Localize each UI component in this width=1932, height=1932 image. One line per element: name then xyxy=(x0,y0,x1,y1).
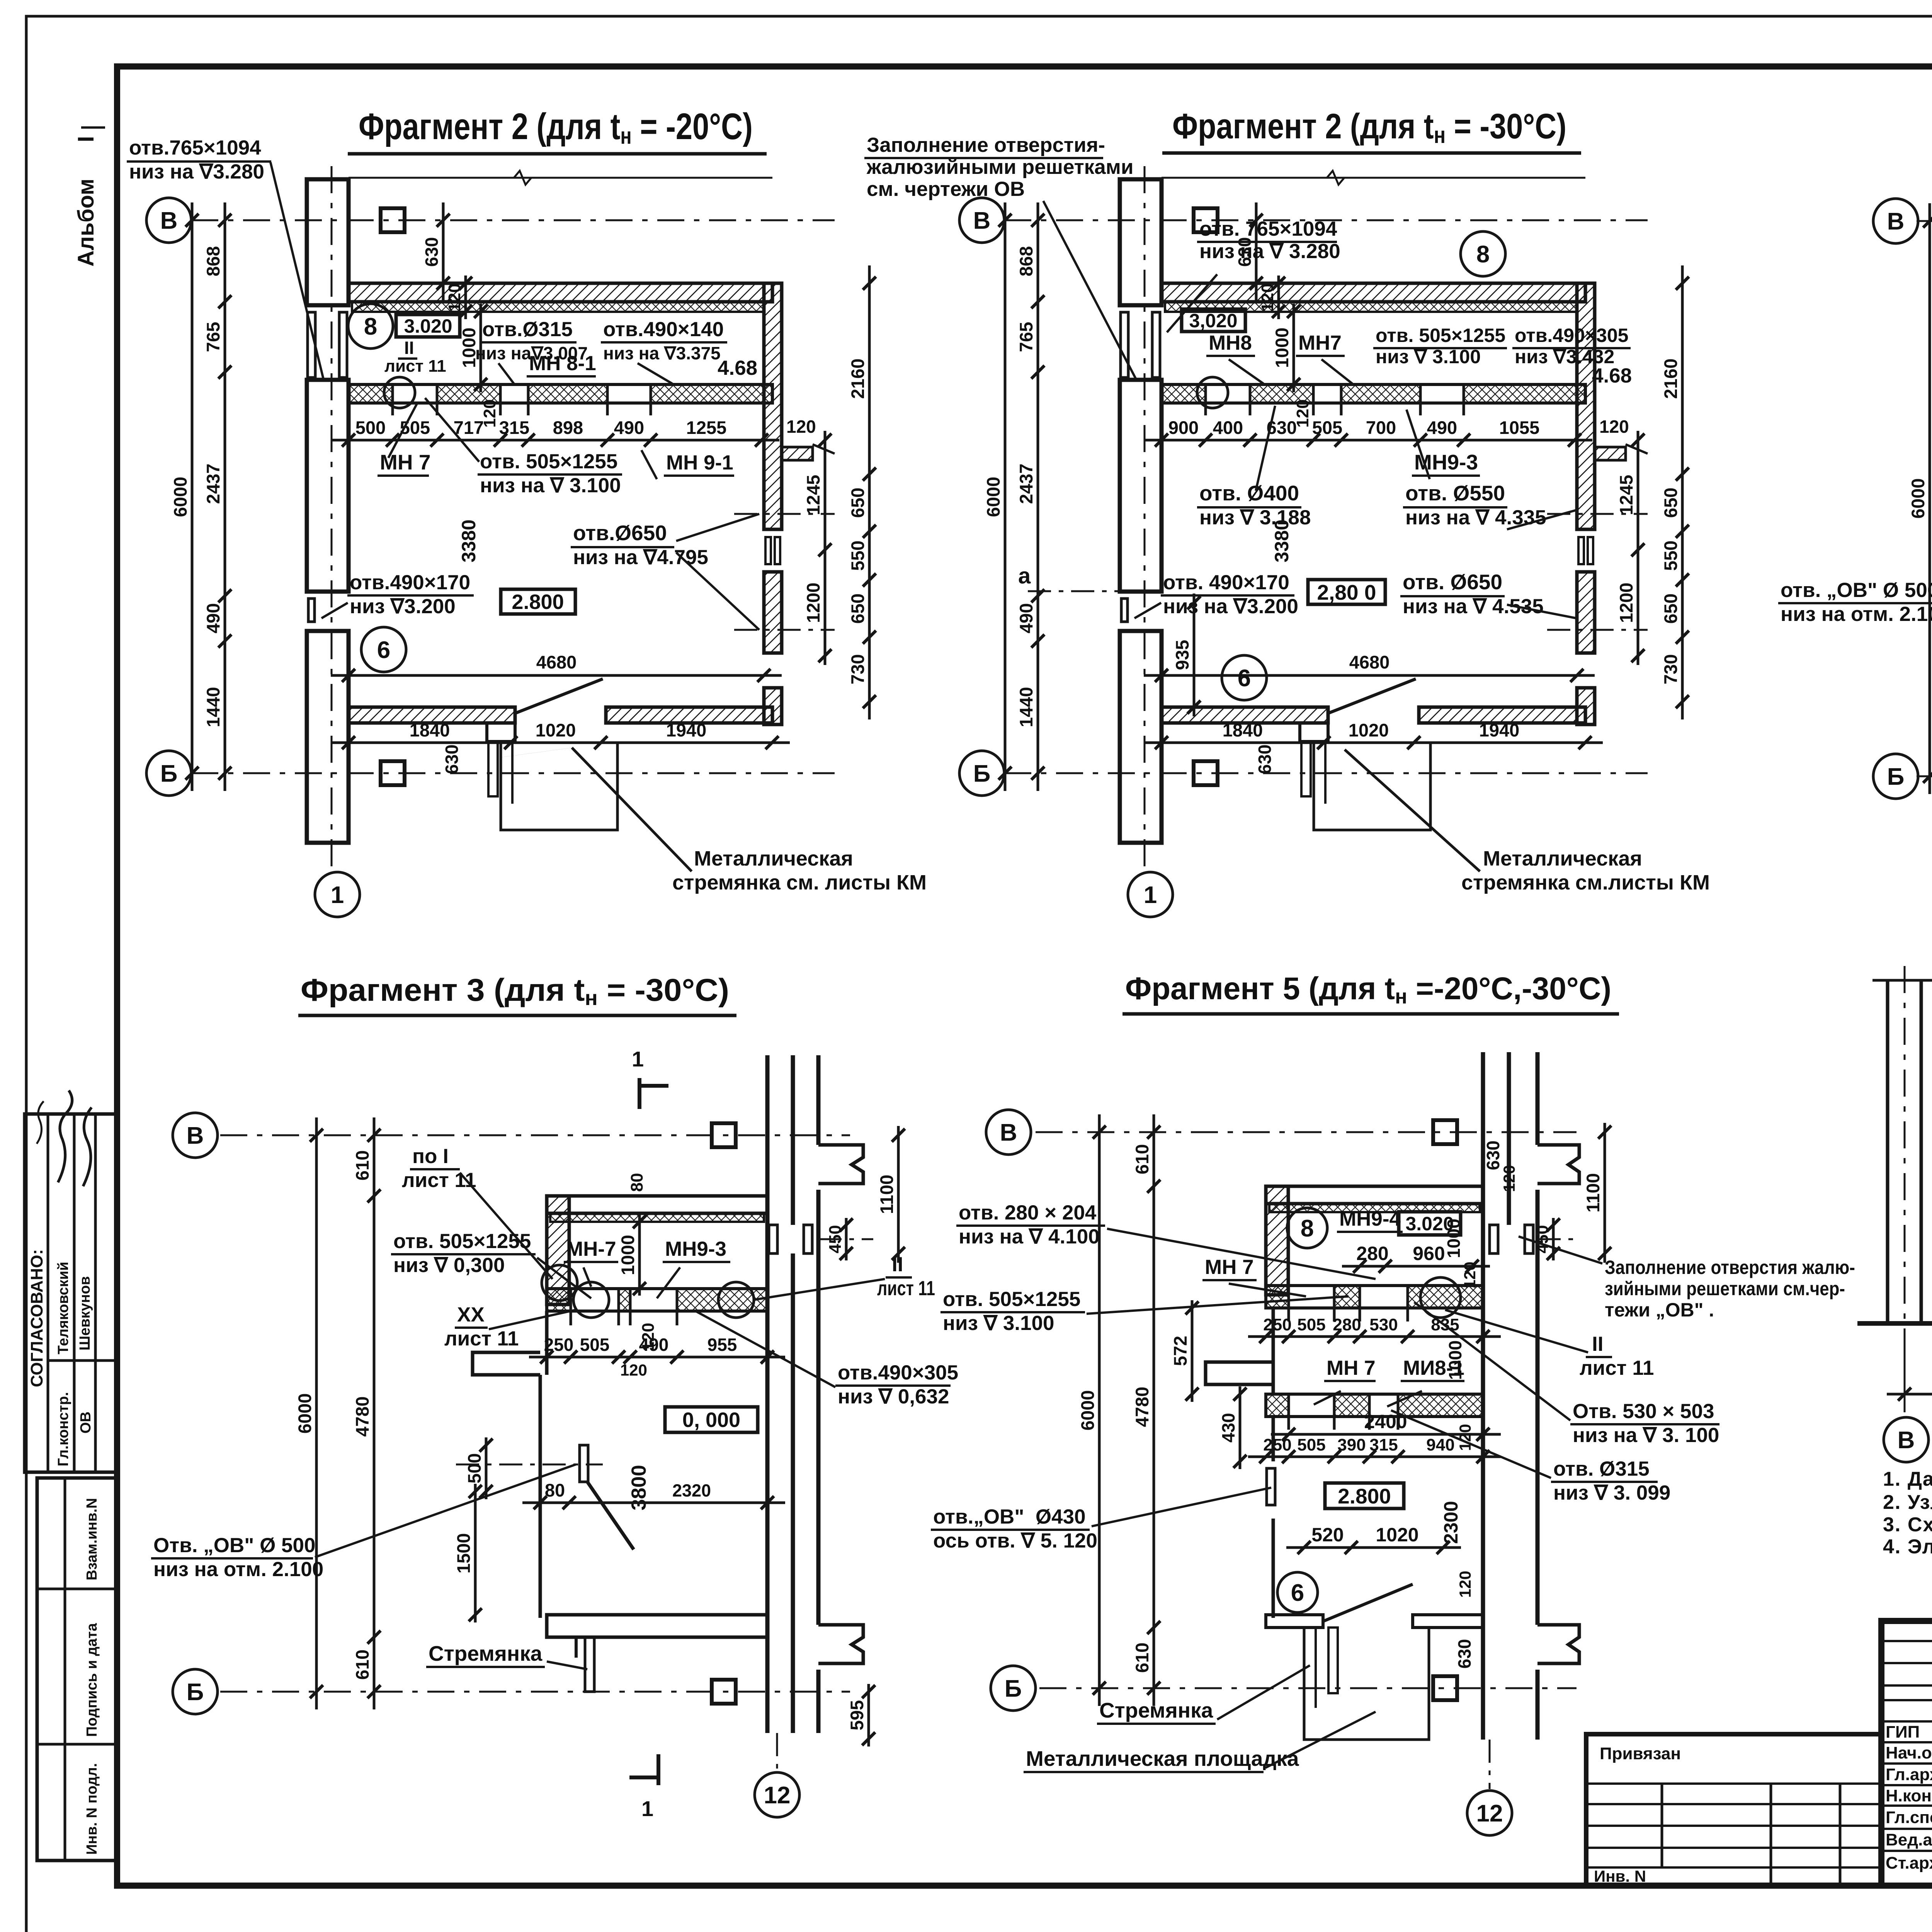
svg-text:490: 490 xyxy=(639,1335,669,1355)
right wall column xyxy=(1481,1052,1485,1740)
svg-text:II: II xyxy=(892,1253,903,1276)
node circles (uzly) xyxy=(542,1265,577,1301)
svg-text:Металлическая площадка: Металлическая площадка xyxy=(1026,1747,1299,1770)
door swing line xyxy=(1328,679,1416,713)
svg-text:120: 120 xyxy=(445,283,464,311)
lower interior band with openings xyxy=(1266,1394,1483,1417)
axis circle В xyxy=(146,198,191,243)
svg-text:Стремянка: Стремянка xyxy=(1099,1698,1213,1722)
svg-text:Заполнение отверстия жалю-: Заполнение отверстия жалю- xyxy=(1605,1257,1855,1278)
svg-text:1. Данный лист см. совместно с: 1. Данный лист см. совместно с листами 1… xyxy=(1883,1468,1932,1490)
svg-text:1200: 1200 xyxy=(1616,583,1636,623)
svg-text:2320: 2320 xyxy=(672,1481,711,1500)
axis circle В xyxy=(173,1113,218,1158)
svg-text:1100: 1100 xyxy=(1583,1173,1603,1213)
bottom wall left segment (hatched) xyxy=(349,707,515,723)
svg-text:1255: 1255 xyxy=(686,417,727,438)
axis B line xyxy=(1004,219,1648,221)
axis circle Б xyxy=(959,751,1004,796)
svg-text:Взам.инв.N: Взам.инв.N xyxy=(84,1498,100,1580)
svg-text:Альбом: Альбом xyxy=(73,179,99,267)
svg-text:Вед.арх.: Вед.арх. xyxy=(1886,1830,1932,1849)
svg-text:900: 900 xyxy=(1168,417,1199,438)
bottom wall right segment (hatched) xyxy=(606,707,772,723)
svg-text:1000: 1000 xyxy=(617,1235,638,1276)
svg-text:315: 315 xyxy=(499,417,529,438)
svg-text:низ ∇ 3. 099: низ ∇ 3. 099 xyxy=(1553,1481,1670,1504)
svg-text:490: 490 xyxy=(1427,417,1457,438)
wall top T-cap xyxy=(818,1145,863,1184)
svg-text:550: 550 xyxy=(1660,541,1681,571)
right inner dims 1245/1200 xyxy=(824,431,827,665)
svg-text:650: 650 xyxy=(847,594,868,624)
svg-text:по I: по I xyxy=(412,1145,449,1168)
svg-text:низ на отм. 2.100: низ на отм. 2.100 xyxy=(1781,603,1932,626)
right top dims 1100/450 xyxy=(1604,1123,1606,1263)
axis bubble 8 xyxy=(1287,1208,1327,1248)
left dimension 6000 xyxy=(191,202,194,791)
svg-text:868: 868 xyxy=(203,246,223,276)
svg-text:120: 120 xyxy=(786,417,816,437)
svg-text:630: 630 xyxy=(442,745,462,774)
svg-text:610: 610 xyxy=(1132,1643,1152,1673)
dashdot window axes right xyxy=(734,513,835,515)
svg-text:595: 595 xyxy=(847,1700,867,1730)
svg-text:1: 1 xyxy=(331,882,344,908)
svg-text:120: 120 xyxy=(1293,399,1312,427)
svg-text:700: 700 xyxy=(1366,417,1396,438)
svg-text:120: 120 xyxy=(1461,1262,1479,1289)
svg-text:Фрагмент 2 (для tн = -30°C): Фрагмент 2 (для tн = -30°C) xyxy=(1172,107,1566,148)
svg-text:4.68: 4.68 xyxy=(1592,364,1632,387)
svg-text:II: II xyxy=(404,338,414,358)
level box 0.000 xyxy=(665,1407,758,1432)
svg-text:1020: 1020 xyxy=(536,720,576,740)
bottom wall band xyxy=(1266,1615,1323,1628)
axis circle 12 xyxy=(1467,1791,1512,1835)
svg-text:МН9-3: МН9-3 xyxy=(665,1238,726,1260)
axis bubble 6 xyxy=(1222,655,1267,700)
node circle on band xyxy=(384,377,415,408)
axis Б line xyxy=(1917,776,1932,777)
axis B line xyxy=(220,1134,850,1136)
svg-text:лист 11: лист 11 xyxy=(877,1277,935,1300)
axis circle В xyxy=(1884,1417,1929,1462)
svg-text:низ на ∇ 4.335: низ на ∇ 4.335 xyxy=(1405,506,1546,529)
interior partition band with vent openings xyxy=(1162,384,1585,403)
svg-text:Инв. N подл.: Инв. N подл. xyxy=(84,1763,100,1855)
svg-text:650: 650 xyxy=(1660,488,1681,518)
svg-text:В: В xyxy=(973,207,991,234)
svg-text:отв.490×170: отв.490×170 xyxy=(350,571,470,594)
svg-text:МН9-4: МН9-4 xyxy=(1339,1207,1401,1230)
svg-text:1440: 1440 xyxy=(1016,687,1036,728)
axis circle В xyxy=(986,1110,1031,1155)
svg-text:отв. Ø315: отв. Ø315 xyxy=(1553,1458,1650,1480)
opening dimension chain xyxy=(331,439,779,442)
dashdot window axes right xyxy=(1547,513,1648,515)
level box 3.020 xyxy=(1399,1212,1461,1235)
left dimension 6000 xyxy=(1004,202,1007,791)
svg-text:1: 1 xyxy=(641,1796,653,1821)
svg-text:лист 11: лист 11 xyxy=(444,1327,519,1350)
svg-text:отв.Ø315: отв.Ø315 xyxy=(482,318,573,341)
svg-text:955: 955 xyxy=(707,1335,737,1355)
svg-text:низ ∇ 3.100: низ ∇ 3.100 xyxy=(1376,346,1481,367)
svg-text:низ на отм. 2.100: низ на отм. 2.100 xyxy=(153,1558,323,1581)
svg-text:Металлическая: Металлическая xyxy=(1483,847,1642,870)
left lower wall xyxy=(539,1375,542,1618)
bottom wall right segment (hatched) xyxy=(1419,707,1585,723)
svg-text:СОГЛАСОВАНО:: СОГЛАСОВАНО: xyxy=(27,1249,46,1387)
svg-text:120: 120 xyxy=(480,399,499,427)
section mark 1 top xyxy=(638,1078,641,1109)
svg-text:630: 630 xyxy=(422,237,442,267)
svg-text:МН 7: МН 7 xyxy=(1205,1256,1254,1279)
svg-text:Шевкунов: Шевкунов xyxy=(77,1276,93,1350)
svg-text:МН8: МН8 xyxy=(1209,332,1252,354)
svg-text:730: 730 xyxy=(1660,654,1681,684)
axis circle Б xyxy=(173,1669,218,1714)
svg-text:2160: 2160 xyxy=(847,359,868,399)
right inner dims 1245/1200 xyxy=(1637,431,1639,665)
svg-text:1200: 1200 xyxy=(803,583,823,623)
binding table (Привязан) xyxy=(1586,1734,1881,1886)
interior vertical dim 1000/120 and 3380 xyxy=(1293,304,1295,392)
svg-text:Инв. N: Инв. N xyxy=(1594,1867,1646,1885)
svg-text:2.800: 2.800 xyxy=(1338,1484,1391,1508)
svg-text:отв.765×1094: отв.765×1094 xyxy=(129,136,261,159)
svg-text:120: 120 xyxy=(1599,417,1629,437)
svg-text:1500: 1500 xyxy=(453,1533,474,1574)
svg-text:низ на ∇3.200: низ на ∇3.200 xyxy=(1163,595,1298,618)
svg-text:280: 280 xyxy=(1333,1315,1361,1334)
svg-text:4780: 4780 xyxy=(1132,1387,1152,1427)
window slot marks in wall xyxy=(1490,1225,1498,1253)
svg-text:120: 120 xyxy=(1500,1165,1518,1192)
svg-text:низ на ∇ 3.100: низ на ∇ 3.100 xyxy=(480,474,621,497)
top wall insulation band (cross-hatched) xyxy=(1165,302,1577,312)
vent chamber top wall (hatched) xyxy=(547,1196,767,1213)
svg-text:отв. Ø550: отв. Ø550 xyxy=(1405,481,1505,505)
window slot marks xyxy=(769,1225,777,1253)
axis Б line xyxy=(220,1691,850,1693)
svg-text:низ ∇ 3.188: низ ∇ 3.188 xyxy=(1199,506,1311,529)
dim chain 250/505/390/315/940 xyxy=(1248,1456,1501,1458)
svg-text:Привязан: Привязан xyxy=(1600,1744,1681,1763)
svg-text:Фрагмент 5 (для tн =-20°C,-30°: Фрагмент 5 (для tн =-20°C,-30°C) xyxy=(1125,971,1611,1008)
dim chain 280/960 top xyxy=(1342,1265,1490,1268)
svg-text:Гл.констр.: Гл.констр. xyxy=(55,1392,71,1466)
bottom wall left segment (hatched) xyxy=(1162,707,1328,723)
svg-text:2,80 0: 2,80 0 xyxy=(1317,580,1376,604)
svg-text:898: 898 xyxy=(553,417,583,438)
svg-text:отв. 280 × 204: отв. 280 × 204 xyxy=(959,1201,1097,1224)
axis bubble 8 xyxy=(1461,231,1505,276)
right wall pipe stub xyxy=(782,447,813,460)
svg-text:отв.Ø650: отв.Ø650 xyxy=(573,521,667,545)
svg-text:отв. Ø650: отв. Ø650 xyxy=(1403,570,1502,594)
svg-text:4.68: 4.68 xyxy=(718,357,757,379)
ladder diagonal xyxy=(587,1482,634,1549)
top extension line with break xyxy=(1162,177,1585,179)
axis circle В xyxy=(959,198,1004,243)
svg-text:В: В xyxy=(160,207,178,234)
svg-text:390: 390 xyxy=(1337,1435,1366,1454)
right wall window sill marks xyxy=(765,537,771,564)
svg-text:1055: 1055 xyxy=(1499,417,1540,438)
svg-text:тежи „ОВ" .: тежи „ОВ" . xyxy=(1605,1299,1714,1321)
svg-text:см. чертежи ОВ: см. чертежи ОВ xyxy=(867,178,1025,201)
axis circle 12 xyxy=(755,1772,799,1817)
svg-text:6: 6 xyxy=(377,637,390,663)
svg-text:2437: 2437 xyxy=(1016,464,1036,504)
svg-text:430: 430 xyxy=(1218,1413,1238,1443)
interior partition band with vent openings xyxy=(349,384,772,403)
svg-text:отв. „ОВ" Ø 500: отв. „ОВ" Ø 500 xyxy=(1781,579,1932,602)
svg-text:В: В xyxy=(187,1122,204,1149)
svg-text:505: 505 xyxy=(580,1335,610,1355)
svg-text:Отв. „ОВ" Ø 500: Отв. „ОВ" Ø 500 xyxy=(153,1534,315,1557)
svg-text:Б: Б xyxy=(187,1679,204,1706)
left dimension chain (868/765/2437/490/1440) xyxy=(224,202,226,791)
svg-text:стремянка см. листы КМ: стремянка см. листы КМ xyxy=(672,871,927,894)
svg-text:8: 8 xyxy=(1476,241,1490,268)
svg-text:120: 120 xyxy=(620,1361,647,1379)
dim 572/430 xyxy=(1191,1300,1194,1402)
svg-text:Б: Б xyxy=(1887,764,1905,790)
dim 935 xyxy=(1193,594,1196,716)
approval signatures xyxy=(58,1090,72,1182)
svg-text:ОВ: ОВ xyxy=(78,1412,94,1434)
svg-text:315: 315 xyxy=(1369,1435,1398,1454)
title block left rows xyxy=(1881,1640,1932,1642)
svg-text:120: 120 xyxy=(1258,283,1277,311)
svg-text:630: 630 xyxy=(1255,745,1275,774)
svg-text:отв. 505×1255: отв. 505×1255 xyxy=(393,1230,531,1253)
svg-text:6000: 6000 xyxy=(983,477,1003,517)
svg-text:Б: Б xyxy=(973,760,991,787)
interior vertical dim 1000/120 and 3380 xyxy=(480,304,482,392)
svg-text:3,020: 3,020 xyxy=(1189,310,1237,332)
svg-text:отв. Ø400: отв. Ø400 xyxy=(1199,481,1299,505)
svg-text:отв. 765×1094: отв. 765×1094 xyxy=(1199,218,1337,240)
svg-text:лист 11: лист 11 xyxy=(1580,1357,1654,1379)
svg-text:I: I xyxy=(73,136,99,142)
svg-text:2160: 2160 xyxy=(1660,359,1681,399)
svg-text:730: 730 xyxy=(847,654,868,684)
dims 500/1500 xyxy=(485,1437,488,1499)
vent chamber outer walls (hatched) xyxy=(1266,1186,1483,1204)
svg-text:3.020: 3.020 xyxy=(404,315,452,337)
pocket step left xyxy=(473,1352,540,1375)
column square marks xyxy=(1194,208,1218,232)
wall top T-cap xyxy=(1537,1145,1579,1184)
svg-text:Фрагмент 2 (для tн = -20°C): Фрагмент 2 (для tн = -20°C) xyxy=(359,106,753,149)
svg-text:1245: 1245 xyxy=(1616,475,1636,515)
axis 1 vertical line xyxy=(331,166,333,869)
svg-text:120: 120 xyxy=(1456,1571,1474,1598)
svg-text:610: 610 xyxy=(352,1150,372,1180)
svg-text:572: 572 xyxy=(1170,1336,1190,1366)
ground line xyxy=(1857,1321,1932,1326)
svg-text:3380: 3380 xyxy=(458,519,480,562)
svg-text:8: 8 xyxy=(1301,1215,1314,1242)
svg-text:530: 530 xyxy=(1369,1315,1398,1334)
svg-text:низ на ∇ 3.280: низ на ∇ 3.280 xyxy=(1199,240,1340,263)
column square marks xyxy=(381,208,405,232)
svg-text:250: 250 xyxy=(1263,1315,1291,1334)
axis bubble 8 + level 3.020 xyxy=(348,304,393,349)
svg-text:В: В xyxy=(1898,1427,1915,1454)
top small dims 630/120 xyxy=(442,202,445,301)
svg-text:отв. 505×1255: отв. 505×1255 xyxy=(1376,325,1505,346)
bottom wall step xyxy=(487,723,515,742)
svg-text:6000: 6000 xyxy=(1077,1390,1098,1431)
left wall window slots xyxy=(1121,312,1128,378)
left column pair xyxy=(1886,980,1889,1323)
svg-text:Н.контр.: Н.контр. xyxy=(1886,1786,1932,1805)
svg-text:МН-7: МН-7 xyxy=(566,1238,616,1260)
level box 2.800 xyxy=(1325,1483,1404,1509)
svg-text:отв.„ОВ" Ø430: отв.„ОВ" Ø430 xyxy=(933,1505,1086,1528)
svg-text:868: 868 xyxy=(1016,246,1036,276)
svg-text:935: 935 xyxy=(1172,640,1192,670)
svg-text:зийными решетками см.чер-: зийными решетками см.чер- xyxy=(1605,1278,1845,1299)
svg-text:МН 7: МН 7 xyxy=(380,450,430,474)
svg-text:6000: 6000 xyxy=(294,1393,315,1434)
svg-text:отв.490×140: отв.490×140 xyxy=(603,318,724,341)
leader to wall slot xyxy=(270,162,324,381)
right wall column xyxy=(765,1055,770,1733)
top small dims 630/120 xyxy=(1255,202,1258,301)
bottom dims 1840/1020/1940 xyxy=(1144,742,1603,744)
svg-text:80: 80 xyxy=(628,1173,646,1192)
right dims 1100/450/595 xyxy=(897,1126,900,1263)
dim 4680 xyxy=(1144,674,1595,677)
approval stamp block (СОГЛАСОВАНО) xyxy=(25,1114,117,1472)
svg-text:12: 12 xyxy=(764,1782,791,1809)
svg-text:4. Элементы обрамления отверст: 4. Элементы обрамления отверстий см. на … xyxy=(1883,1536,1932,1558)
title block main outline xyxy=(1881,1621,1932,1886)
column square marks xyxy=(712,1123,736,1147)
left wall lowest xyxy=(1272,1519,1275,1618)
svg-text:1940: 1940 xyxy=(1479,720,1520,740)
svg-text:Отв. 530 × 503: Отв. 530 × 503 xyxy=(1573,1400,1714,1423)
svg-text:250: 250 xyxy=(1263,1435,1291,1454)
svg-text:Б: Б xyxy=(1005,1675,1022,1702)
axis bubble 6 xyxy=(1277,1572,1318,1612)
svg-text:1000: 1000 xyxy=(1272,328,1292,368)
svg-text:1245: 1245 xyxy=(803,475,823,515)
vent chamber left wall (hatched) xyxy=(547,1196,569,1304)
svg-text:XX: XX xyxy=(457,1303,485,1326)
svg-text:низ на ∇4.795: низ на ∇4.795 xyxy=(573,546,708,569)
svg-text:МИ8-1: МИ8-1 xyxy=(1403,1357,1464,1379)
bottom wall band xyxy=(547,1615,767,1637)
svg-text:Нач.отд.: Нач.отд. xyxy=(1886,1743,1932,1762)
svg-text:610: 610 xyxy=(1132,1144,1152,1174)
svg-text:490: 490 xyxy=(1016,603,1036,633)
dim chain 250/505/120/490/955 xyxy=(529,1356,785,1359)
svg-text:низ на ∇3.280: низ на ∇3.280 xyxy=(129,160,264,183)
dim 520/1020 xyxy=(1286,1546,1461,1549)
svg-text:6: 6 xyxy=(1238,665,1251,692)
svg-text:низ ∇3.200: низ ∇3.200 xyxy=(350,595,456,618)
wall bottom T-cap xyxy=(1537,1625,1579,1663)
axis circle 1 xyxy=(1128,872,1173,917)
svg-text:низ на ∇3.375: низ на ∇3.375 xyxy=(603,343,721,363)
door swing xyxy=(1323,1584,1413,1621)
top exterior wall (hatched) xyxy=(1162,283,1585,302)
svg-text:низ ∇ 0,300: низ ∇ 0,300 xyxy=(393,1254,505,1277)
svg-text:Фрагмент 3 (для tн = -30°C): Фрагмент 3 (для tн = -30°C) xyxy=(301,973,729,1010)
svg-text:отв. 490×170: отв. 490×170 xyxy=(1163,571,1289,594)
left wall column segments xyxy=(1120,179,1162,305)
section top line with break xyxy=(1872,979,1932,982)
dim 4680 xyxy=(331,674,782,677)
svg-text:жалюзийными решетками: жалюзийными решетками xyxy=(866,156,1133,179)
node circle on band xyxy=(1197,377,1228,408)
left dim 610/4780/610 xyxy=(1153,1114,1155,1706)
svg-text:низ ∇ 0,632: низ ∇ 0,632 xyxy=(838,1385,949,1408)
svg-text:250: 250 xyxy=(544,1335,574,1355)
svg-text:940: 940 xyxy=(1426,1435,1454,1454)
stair shaft below xyxy=(1304,1628,1429,1740)
svg-text:630: 630 xyxy=(1454,1639,1475,1669)
right exterior wall segments (hatched) xyxy=(1577,283,1595,529)
wall bottom T-cap xyxy=(818,1625,863,1663)
svg-text:3. Схема раскладки элементов п: 3. Схема раскладки элементов перекрытия … xyxy=(1883,1514,1932,1536)
opening dimension chain xyxy=(1144,439,1592,442)
axis circle Б xyxy=(1873,754,1918,799)
axis dashdot left xyxy=(1904,966,1906,1345)
left wall mid segment xyxy=(1272,1308,1275,1394)
svg-text:0, 000: 0, 000 xyxy=(682,1408,740,1432)
ladder pole below xyxy=(585,1637,594,1692)
right dimension chain 2160/650/550/650/730 xyxy=(1681,265,1684,719)
svg-text:550: 550 xyxy=(847,541,868,571)
axis B line xyxy=(1917,220,1932,222)
window niche left xyxy=(580,1445,588,1482)
top wall insulation band (cross-hatched) xyxy=(352,302,764,312)
svg-text:МН 7: МН 7 xyxy=(1327,1357,1376,1379)
svg-text:765: 765 xyxy=(203,322,223,352)
svg-text:лист 11: лист 11 xyxy=(384,357,446,376)
axis bubble 6 xyxy=(361,627,406,672)
svg-text:1840: 1840 xyxy=(1223,720,1263,740)
svg-text:6000: 6000 xyxy=(170,477,190,517)
column square marks xyxy=(1433,1120,1457,1144)
svg-text:520: 520 xyxy=(1311,1524,1344,1546)
left dim 610/4780/610 xyxy=(373,1117,376,1709)
svg-text:отв.490×305: отв.490×305 xyxy=(1515,325,1628,346)
svg-text:низ ∇ 3.100: низ ∇ 3.100 xyxy=(943,1312,1054,1335)
svg-text:717: 717 xyxy=(454,417,484,438)
svg-text:1: 1 xyxy=(632,1047,644,1071)
right wall window sill marks xyxy=(1578,537,1584,564)
left dimension chain (868/765/2437/490/1440) xyxy=(1037,202,1039,791)
left dim 6000 xyxy=(1929,203,1931,794)
svg-text:Гл.арх.: Гл.арх. xyxy=(1886,1765,1932,1784)
left wall below xyxy=(1272,1417,1275,1461)
svg-text:1440: 1440 xyxy=(203,687,223,728)
svg-text:ось отв. ∇ 5. 120: ось отв. ∇ 5. 120 xyxy=(933,1529,1097,1552)
svg-text:500: 500 xyxy=(355,417,386,438)
svg-text:низ на ∇ 4.100: низ на ∇ 4.100 xyxy=(959,1225,1100,1248)
top exterior wall (hatched) xyxy=(349,283,772,302)
svg-text:2. Узлы I , II , XX см. на лис: 2. Узлы I , II , XX см. на листе 11. xyxy=(1883,1491,1932,1514)
